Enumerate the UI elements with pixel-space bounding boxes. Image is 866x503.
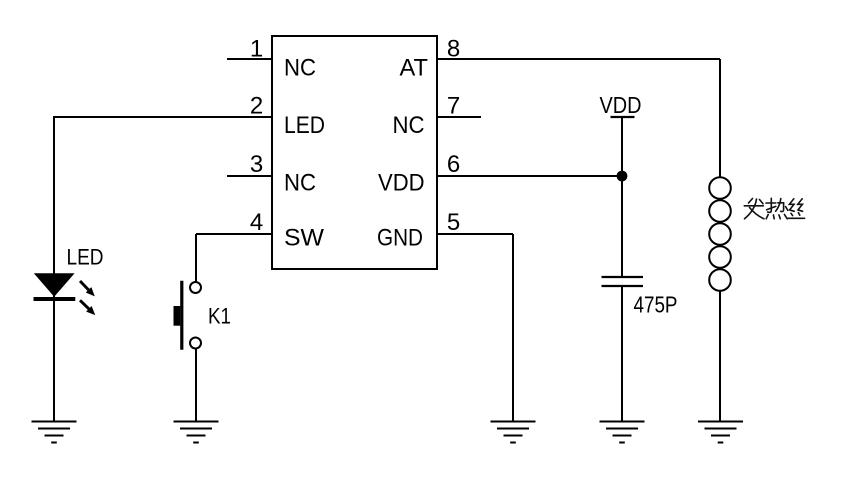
wire pin5 to ground bbox=[436, 234, 513, 422]
svg-text:3: 3 bbox=[250, 151, 263, 178]
char 发 bbox=[744, 199, 764, 219]
wire pin2 to LED net bbox=[54, 116, 272, 118]
wire capacitor to ground bbox=[621, 286, 623, 422]
svg-text:5: 5 bbox=[447, 209, 460, 236]
svg-text:SW: SW bbox=[284, 225, 324, 252]
svg-text:LED: LED bbox=[67, 245, 104, 270]
pushbutton K1 bbox=[174, 281, 232, 350]
svg-text:NC: NC bbox=[284, 170, 316, 197]
wire pin1 stub bbox=[227, 58, 272, 60]
svg-text:K1: K1 bbox=[208, 304, 231, 329]
heater coil (发热丝) bbox=[709, 177, 731, 291]
wire K1 bottom to ground bbox=[195, 349, 197, 422]
ground (pin5 GND) bbox=[491, 422, 536, 443]
svg-text:4: 4 bbox=[250, 209, 263, 236]
svg-text:NC: NC bbox=[284, 55, 316, 82]
LED D1 bbox=[34, 245, 104, 318]
svg-text:VDD: VDD bbox=[378, 170, 425, 197]
wire VDD rail down to capacitor bbox=[621, 117, 623, 277]
wire LED vertical bbox=[53, 116, 55, 422]
svg-text:2: 2 bbox=[250, 93, 263, 120]
ground (capacitor) bbox=[600, 422, 645, 443]
wire pin4 to K1 bbox=[196, 234, 272, 283]
wire pin3 stub bbox=[227, 175, 272, 177]
power symbol VDD bbox=[600, 92, 642, 118]
ground (LED) bbox=[32, 422, 77, 443]
op-amp U1 (8-pin IC body) bbox=[272, 36, 437, 269]
wire pin6 to VDD node bbox=[436, 175, 622, 177]
wire heater bottom to ground bbox=[719, 291, 721, 422]
wire pin8 to heater net bbox=[436, 59, 720, 178]
svg-text:LED: LED bbox=[284, 112, 325, 139]
capacitor C1 475P bbox=[602, 277, 678, 317]
svg-text:GND: GND bbox=[377, 225, 423, 252]
svg-text:NC: NC bbox=[393, 112, 425, 139]
svg-text:7: 7 bbox=[447, 93, 460, 120]
svg-text:AT: AT bbox=[400, 55, 429, 82]
ground (K1) bbox=[174, 422, 219, 443]
svg-text:6: 6 bbox=[447, 151, 460, 178]
node junction dot bbox=[617, 171, 628, 182]
svg-text:475P: 475P bbox=[634, 291, 678, 317]
wire pin7 stub bbox=[436, 116, 481, 118]
ground (heater) bbox=[698, 422, 743, 443]
label 发热丝 (heating wire), drawn as strokes bbox=[744, 198, 804, 219]
char 丝 bbox=[788, 199, 805, 219]
svg-text:VDD: VDD bbox=[600, 92, 642, 118]
char 热 bbox=[766, 198, 788, 219]
